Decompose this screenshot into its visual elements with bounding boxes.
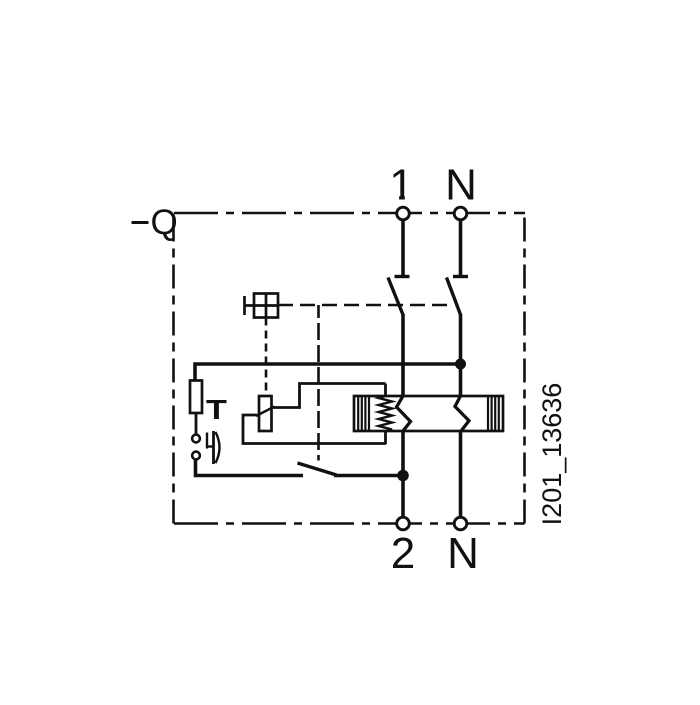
mechanical link dashed horizontal (278, 304, 453, 307)
manual actuator crossed square (245, 294, 279, 318)
junction dot on neutral (455, 359, 466, 370)
pole N moving contact arm (447, 278, 462, 317)
terminal N bottom circle (454, 517, 467, 530)
wire trip contact to junction (334, 474, 404, 478)
svg-text:I201_13636: I201_13636 (537, 383, 567, 526)
pole N fixed contact bar (453, 275, 468, 278)
pushbutton actuator cap arc (216, 432, 220, 463)
test button contact upper circle (192, 435, 200, 443)
svg-text:N: N (447, 529, 479, 578)
wire resistor to test contact (195, 413, 198, 434)
enclosure outline left border (172, 213, 175, 524)
wire release left lead (243, 415, 386, 444)
svg-text:N: N (445, 161, 477, 210)
current transformer right hatch (488, 396, 499, 431)
svg-text:2: 2 (391, 529, 415, 578)
wire release right lead (273, 384, 386, 408)
terminal N top circle (454, 207, 467, 220)
wire phase below transformer (401, 430, 405, 477)
wire phase to terminal 2 (401, 476, 405, 517)
wire neutral drop from terminal N (459, 220, 463, 277)
terminal 2 circle (397, 517, 410, 530)
wire phase drop from terminal 1 (401, 220, 405, 277)
secondary winding zigzag (379, 396, 393, 431)
wire secondary winding vertical top stub (384, 384, 387, 398)
trip release F body (259, 396, 272, 431)
pole 1 moving contact arm (388, 278, 404, 317)
enclosure outline right border (523, 213, 526, 524)
wire test contact down to bottom bus (196, 460, 304, 476)
junction dot phase bottom (397, 470, 409, 482)
white patch left of digit 1 foot (392, 196, 400, 201)
resistor R test (190, 381, 202, 414)
wire neutral middle segment (459, 315, 463, 398)
trip release diagonal stroke (256, 407, 275, 417)
wire secondary winding vertical bottom stub (384, 430, 387, 444)
label -Q (132, 221, 149, 224)
phase primary winding zigzag (397, 396, 411, 432)
pushbutton actuator bar small (206, 433, 208, 449)
white patch right of digit 1 foot (405, 196, 413, 201)
wire internal top bus (195, 364, 461, 381)
wire phase middle segment (401, 315, 405, 398)
enclosure outline top border (174, 212, 525, 215)
neutral primary winding zigzag (455, 396, 469, 432)
mechanical link dashed vertical to release (265, 318, 268, 397)
trip contact arm (298, 463, 337, 475)
terminal 1 circle (397, 207, 410, 220)
svg-text:Q: Q (151, 203, 178, 242)
pushbutton actuator bar tall (212, 431, 215, 464)
enclosure outline bottom border (174, 522, 525, 525)
svg-text:T: T (206, 394, 227, 425)
wire neutral below transformer (459, 430, 463, 517)
pushbutton actuator link (207, 445, 214, 447)
test button contact lower circle (192, 452, 200, 460)
mechanical link dashed vertical to trip contact (317, 305, 320, 461)
current transformer left hatch (358, 396, 369, 431)
current transformer core (354, 396, 503, 431)
pole 1 fixed contact bar (395, 275, 410, 278)
svg-text:1: 1 (389, 161, 413, 210)
